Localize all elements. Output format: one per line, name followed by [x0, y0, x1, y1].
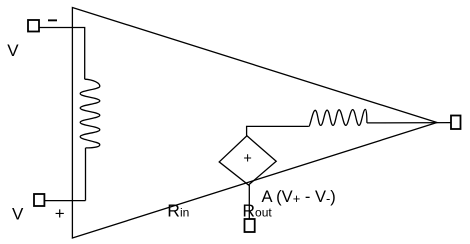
terminal square V- input	[28, 20, 39, 32]
resistor Rin (vertical coil)	[80, 79, 100, 148]
svg-text:V: V	[12, 205, 24, 224]
dependent source U1 (diamond)	[219, 136, 276, 185]
wire from Rin bottom to V+ wire	[85, 148, 87, 201]
terminal square bottom (Rout reference)	[245, 219, 255, 232]
terminal square output	[451, 116, 461, 130]
wire from dependent source top to Rout	[247, 126, 309, 135]
resistor Rout (horizontal coil)	[309, 109, 367, 126]
wire from V- terminal to Rin top	[39, 28, 85, 80]
wire from Rout to output terminal	[367, 122, 451, 124]
svg-text:Rin: Rin	[167, 200, 189, 220]
op-amp triangle	[72, 8, 437, 239]
svg-text:A (V+ - V-): A (V+ - V-)	[262, 188, 336, 206]
svg-text:V: V	[7, 41, 19, 60]
svg-text:+: +	[243, 151, 251, 167]
wire from V+ terminal	[44, 200, 85, 202]
minus sign above inverting input wire	[48, 19, 57, 21]
svg-text:+: +	[55, 204, 65, 223]
wire from dependent source bottom to bottom terminal	[248, 185, 250, 219]
terminal square V+ input	[34, 194, 44, 206]
